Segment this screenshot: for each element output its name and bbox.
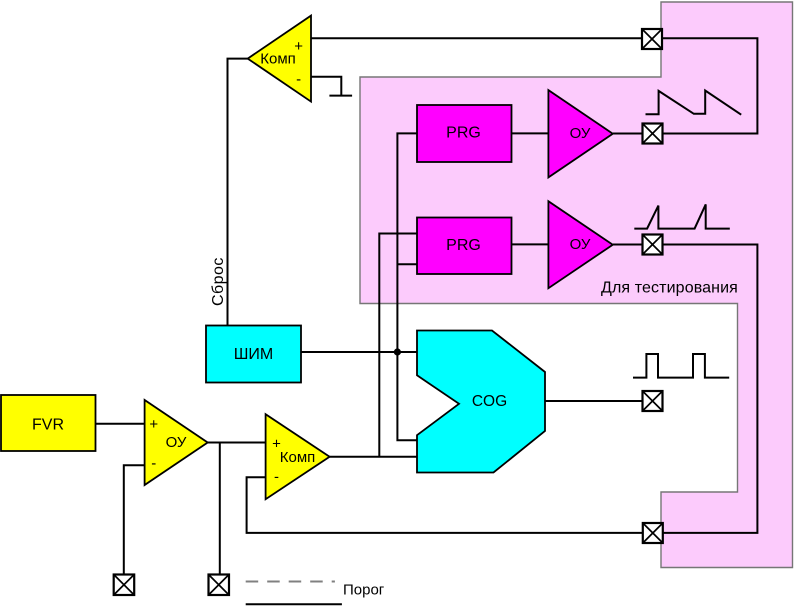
node: junction dot ШИМ net	[394, 348, 401, 355]
wire: top-right loop pin to sawtooth pin	[662, 38, 758, 133]
wire: ОУ output branch down to pin	[219, 443, 221, 575]
wire: ОУ minus input down to pin	[124, 465, 145, 574]
pin: bottom-right (threshold input)	[643, 523, 663, 543]
wire: FVR to ОУ plus input	[96, 423, 145, 425]
pin: sawtooth output	[643, 124, 663, 144]
wire: top comparator + input from pin	[311, 37, 643, 39]
wire: ШИМ output to COG	[301, 351, 418, 353]
svg-text:PRG: PRG	[446, 237, 481, 254]
block COG	[417, 331, 545, 473]
svg-text:+: +	[272, 436, 281, 453]
svg-text:ОУ: ОУ	[570, 125, 591, 142]
wire: COG output to pin	[545, 400, 643, 402]
svg-text:Сброс: Сброс	[210, 257, 227, 306]
wire: ОУ2 output to pin	[613, 244, 644, 246]
wire: top comparator output (Сброс) down to ШИМ	[228, 59, 248, 326]
op-amp ОУ2 (magenta)	[548, 201, 612, 288]
waveform: sawtooth	[646, 91, 742, 115]
pin: COG output	[643, 391, 663, 411]
svg-text:+: +	[294, 38, 303, 55]
wire: ОУ1 output to pin	[613, 133, 643, 135]
wire: PRG2 upper input vertical to Комп output net	[379, 234, 417, 457]
wire: bottom pin to Комп minus input	[247, 477, 643, 533]
waveform: square pulses	[633, 354, 729, 378]
wire: PRG1 input vertical down to COG lower input	[397, 133, 417, 440]
pin: top-right (to comparator +)	[642, 29, 662, 49]
block PRG1	[417, 105, 512, 162]
op-amp ОУ (yellow)	[145, 400, 208, 485]
svg-text:ОУ: ОУ	[166, 434, 187, 451]
wire: Комп output to COG	[330, 456, 417, 458]
wire: right loop pulse pin down to bottom pin	[662, 245, 757, 533]
pin: pulse output	[643, 235, 663, 255]
svg-text:-: -	[274, 469, 279, 486]
waveform: spike pulses	[634, 204, 730, 228]
test-area region "Для тестирования" (pink)	[360, 2, 793, 568]
legend: solid line	[246, 603, 342, 605]
pin: bottom-left 1 (ОУ minus)	[114, 575, 135, 596]
wire: stub to PRG2 lower input	[397, 263, 417, 265]
svg-text:Комп: Комп	[280, 449, 316, 466]
op-amp ОУ1 (magenta)	[548, 90, 612, 177]
svg-text:COG: COG	[472, 393, 507, 410]
block ШИМ	[206, 326, 301, 383]
svg-text:Комп: Комп	[260, 51, 296, 68]
svg-text:ШИМ: ШИМ	[234, 346, 274, 363]
block PRG2	[417, 218, 512, 275]
wire: top comparator minus input to ground	[311, 77, 341, 96]
svg-text:-: -	[296, 71, 301, 88]
comparator Комп (top, points left)	[248, 16, 311, 102]
svg-text:PRG: PRG	[446, 125, 481, 142]
wire: ОУ output to Комп plus input	[208, 442, 266, 444]
wire: PRG1 output to ОУ1	[511, 132, 548, 134]
svg-text:ОУ: ОУ	[570, 236, 591, 253]
wire: PRG2 output to ОУ2	[511, 243, 549, 245]
svg-text:FVR: FVR	[32, 417, 64, 434]
block FVR	[1, 395, 96, 451]
svg-text:-: -	[151, 455, 156, 472]
svg-text:+: +	[149, 416, 158, 433]
legend: dashed threshold line	[246, 581, 335, 583]
comparator Комп (bottom, points right)	[266, 414, 330, 499]
svg-text:Порог: Порог	[343, 582, 385, 599]
svg-text:Для тестирования: Для тестирования	[601, 280, 738, 297]
ground	[329, 95, 352, 97]
pin: bottom-left 2 (ОУ output)	[209, 575, 230, 596]
